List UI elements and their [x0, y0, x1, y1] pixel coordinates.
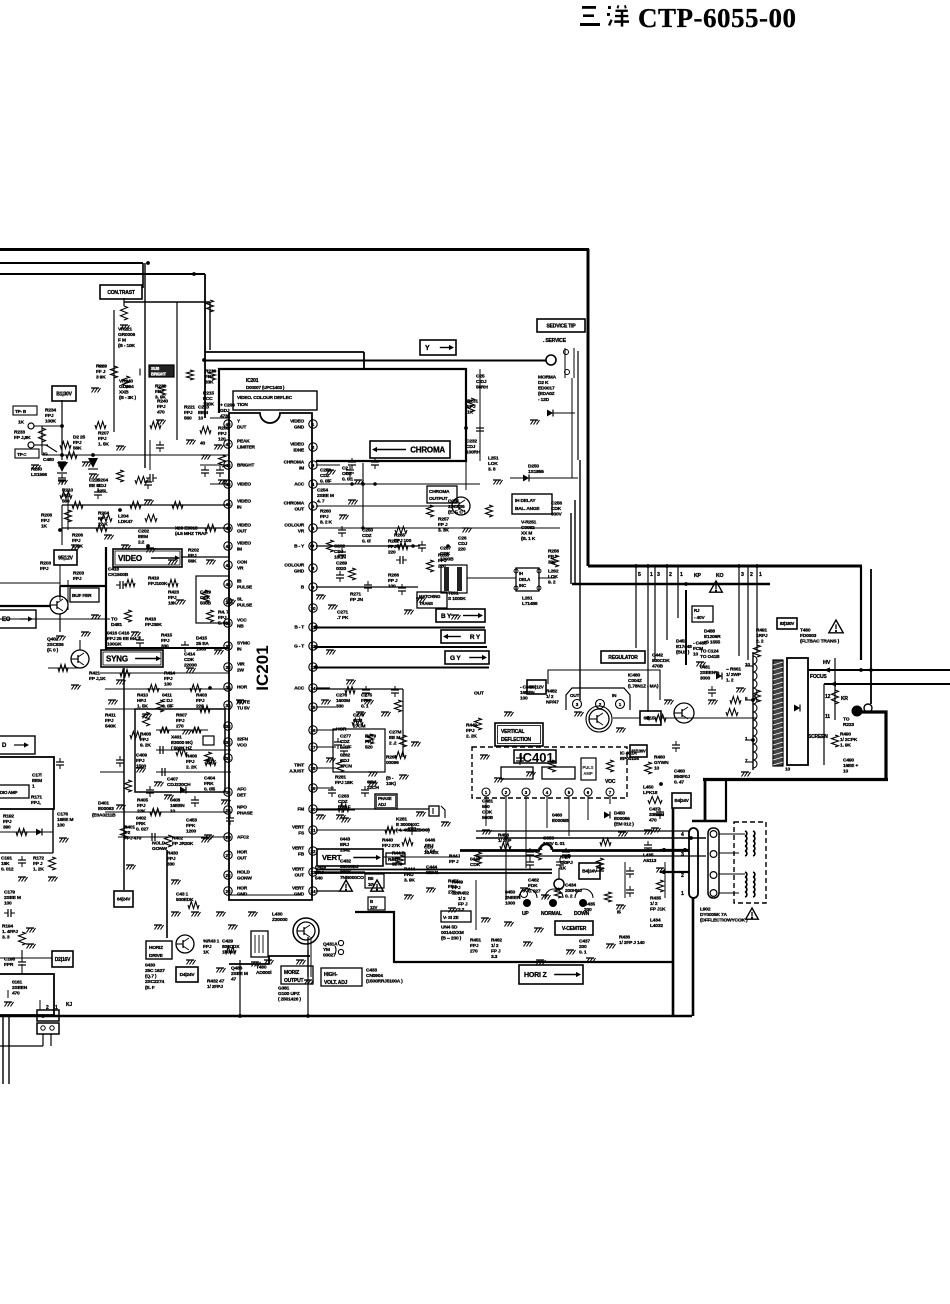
svg-text:G100 UPZ: G100 UPZ	[278, 991, 300, 997]
svg-text:0. 1: 0. 1	[579, 950, 587, 956]
svg-text:TINT: TINT	[294, 763, 304, 769]
svg-text:Z20000: Z20000	[272, 917, 288, 923]
svg-text:83|180V: 83|180V	[780, 621, 795, 626]
svg-text:VIDEO: VIDEO	[118, 554, 142, 563]
svg-text:EP00104: EP00104	[620, 756, 639, 762]
svg-text:EO: EO	[2, 617, 11, 623]
svg-text:1/ 2: 1/ 2	[546, 694, 554, 700]
svg-text:FPJ: FPJ	[157, 404, 166, 410]
svg-text:R460: R460	[654, 754, 665, 760]
svg-text:E3000 9K): E3000 9K)	[171, 740, 193, 746]
svg-text:FPJ: FPJ	[467, 404, 476, 410]
svg-text:18K: 18K	[1, 861, 10, 867]
svg-text:PHASE: PHASE	[378, 796, 392, 801]
svg-text:1. 2: 1. 2	[726, 678, 734, 684]
svg-text:26: 26	[225, 873, 231, 878]
svg-text:TO C124: TO C124	[700, 648, 719, 654]
svg-text:2342: 2342	[340, 848, 351, 854]
svg-text:C195: C195	[4, 956, 15, 962]
svg-text:1/ 2WP: 1/ 2WP	[726, 672, 742, 678]
svg-text:R430: R430	[167, 850, 178, 856]
svg-text:R432 47: R432 47	[207, 978, 225, 984]
svg-text:FPJ: FPJ	[470, 943, 479, 949]
svg-text:R440: R440	[382, 837, 393, 843]
svg-text:2: 2	[46, 1005, 49, 1011]
svg-text:25: 25	[225, 889, 231, 894]
svg-text:FPJ: FPJ	[136, 758, 145, 764]
svg-text:EE M: EE M	[389, 735, 400, 741]
svg-text:FM: FM	[297, 807, 304, 813]
svg-text:D2 25: D2 25	[73, 434, 86, 440]
svg-text:R607: R607	[176, 712, 187, 718]
svg-text:KR: KR	[841, 696, 848, 702]
svg-text:KP: KP	[694, 573, 702, 579]
svg-text:( 500K HZ: ( 500K HZ	[171, 746, 192, 752]
svg-text:C433: C433	[366, 967, 377, 973]
svg-text:C263: C263	[338, 793, 349, 799]
svg-text:330: 330	[336, 704, 344, 710]
svg-text:TO: TO	[843, 716, 850, 722]
svg-text:32FN: 32FN	[237, 737, 249, 743]
svg-text:CDZ: CDZ	[338, 799, 348, 805]
svg-text:FPJ 25 EE M4.7: FPJ 25 EE M4.7	[107, 636, 141, 642]
svg-text:C480: C480	[43, 457, 54, 463]
svg-text:FPJ39K: FPJ39K	[145, 622, 162, 628]
svg-text:D415: D415	[196, 635, 207, 641]
svg-text:VERTICAL: VERTICAL	[501, 729, 525, 735]
svg-text:12V: 12V	[370, 905, 377, 910]
svg-text:PHASE: PHASE	[237, 811, 254, 817]
svg-text:4. 7: 4. 7	[317, 499, 325, 505]
svg-text:R281: R281	[335, 774, 346, 780]
svg-text:IC480: IC480	[628, 672, 641, 678]
svg-text:NP/47: NP/47	[546, 700, 559, 706]
svg-text:DRIVE: DRIVE	[149, 953, 164, 959]
svg-text:800CDX: 800CDX	[222, 944, 240, 950]
svg-text:HV: HV	[823, 660, 831, 666]
svg-text:41: 41	[225, 563, 231, 568]
svg-text:0262: 0262	[340, 752, 351, 758]
svg-text:FPJ: FPJ	[466, 728, 475, 734]
svg-text:0161: 0161	[12, 979, 23, 985]
svg-text:C204: C204	[97, 477, 108, 483]
svg-text:T480: T480	[800, 627, 811, 633]
svg-text:2SC836: 2SC836	[47, 642, 64, 648]
svg-text:CHROMA: CHROMA	[429, 489, 450, 495]
svg-text:18K: 18K	[168, 601, 177, 607]
svg-text:120: 120	[218, 437, 226, 443]
svg-text:1: 1	[759, 572, 762, 578]
svg-text:R421: R421	[89, 670, 100, 676]
svg-text:16EEN: 16EEN	[520, 690, 535, 696]
svg-text:R490: R490	[840, 731, 851, 737]
svg-text:DET: DET	[237, 793, 246, 799]
svg-text:200HNJ: 200HNJ	[565, 888, 582, 894]
svg-text:0443: 0443	[340, 836, 351, 842]
svg-text:18: 18	[310, 766, 316, 771]
svg-text:10: 10	[654, 766, 660, 772]
svg-text:FP J: FP J	[438, 522, 448, 528]
svg-text:2. 2K: 2. 2K	[186, 765, 197, 771]
svg-text:FPJ: FPJ	[188, 553, 197, 559]
svg-text:R256: R256	[548, 548, 559, 554]
svg-text:VOC: VOC	[605, 779, 616, 785]
svg-text:VIDEO. COLOUR DEFLEC: VIDEO. COLOUR DEFLEC	[237, 395, 293, 401]
svg-text:4: 4	[312, 482, 315, 487]
svg-text:(Q.7 ): (Q.7 )	[145, 974, 157, 980]
svg-text:34: 34	[225, 703, 231, 708]
svg-text:(EDA0Z: (EDA0Z	[538, 391, 555, 397]
svg-text:ADJ: ADJ	[378, 802, 387, 807]
svg-text:1K: 1K	[467, 410, 474, 416]
svg-text:25C 1627: 25C 1627	[145, 968, 165, 974]
svg-text:E00063: E00063	[98, 806, 114, 812]
svg-text:7NB000CO: 7NB000CO	[340, 875, 364, 881]
svg-text:E1206R: E1206R	[704, 634, 721, 640]
svg-text:CN0904: CN0904	[366, 973, 383, 979]
svg-text:R203: R203	[73, 570, 84, 576]
svg-text:500CDK: 500CDK	[652, 658, 670, 664]
svg-text:FP J: FP J	[449, 859, 459, 865]
svg-text:FPR: FPR	[4, 962, 14, 968]
svg-text:0416 C416: 0416 C416	[107, 630, 130, 636]
svg-text:DY0005K 7A: DY0005K 7A	[700, 912, 727, 918]
svg-text:22: 22	[310, 849, 316, 854]
svg-text:XX M: XX M	[521, 531, 532, 537]
svg-text:540: 540	[315, 876, 323, 882]
svg-text:FPJ 18K: FPJ 18K	[335, 780, 354, 786]
svg-text:VR: VR	[237, 566, 244, 572]
svg-text:SYMC: SYMC	[237, 641, 251, 647]
svg-text:2. 2K: 2. 2K	[466, 734, 477, 740]
svg-text:R462: R462	[491, 937, 502, 943]
svg-text:VIR: VIR	[237, 662, 245, 668]
svg-text:CHROMA: CHROMA	[410, 445, 445, 454]
svg-text:KJ: KJ	[66, 1002, 72, 1008]
svg-text:1000: 1000	[505, 901, 516, 907]
svg-text:COLOUR: COLOUR	[284, 523, 304, 529]
svg-text:V-CEMTER: V-CEMTER	[562, 926, 587, 932]
svg-text:FP J,8K: FP J,8K	[14, 435, 31, 441]
svg-text:C DJ: C DJ	[476, 379, 487, 385]
svg-text:95|12V: 95|12V	[58, 555, 74, 561]
svg-text:T480: T480	[256, 964, 267, 970]
svg-text:R452: R452	[458, 890, 469, 896]
svg-text:33K: 33K	[205, 380, 214, 386]
svg-text:R408: R408	[140, 731, 151, 737]
svg-text:R44J: R44J	[449, 853, 460, 859]
svg-text:C262: C262	[334, 543, 345, 549]
svg-text:CDJ: CDJ	[458, 541, 468, 547]
svg-text:33: 33	[225, 724, 231, 729]
svg-text:R449: R449	[466, 722, 477, 728]
svg-text:0. 0l1: 0. 0l1	[342, 477, 354, 483]
svg-text:0. 027: 0. 027	[136, 827, 149, 833]
svg-text:FPJ,: FPJ,	[31, 800, 41, 806]
svg-text:OUT: OUT	[237, 529, 247, 535]
svg-text:R411: R411	[105, 712, 116, 718]
svg-text:10K): 10K)	[386, 781, 396, 787]
svg-text:FP J: FP J	[33, 861, 43, 867]
svg-text:0. 0l: 0. 0l	[362, 539, 371, 545]
svg-text:D401: D401	[98, 800, 109, 806]
svg-text:R271: R271	[350, 591, 361, 597]
svg-text:IC201: IC201	[253, 645, 272, 690]
svg-text:R208: R208	[41, 512, 52, 518]
svg-text:ERJ: ERJ	[340, 842, 349, 848]
svg-text:L251: L251	[488, 455, 499, 461]
svg-text:3.3: 3.3	[491, 954, 498, 960]
svg-text:FPJ: FPJ	[105, 718, 114, 724]
svg-text:R441: R441	[388, 857, 399, 862]
svg-text:CHROMA: CHROMA	[284, 460, 305, 466]
svg-text:VIDEO: VIDEO	[237, 482, 251, 488]
svg-text:14: 14	[310, 686, 316, 691]
svg-text:FPJ: FPJ	[438, 558, 447, 564]
svg-text:ACC: ACC	[294, 686, 305, 692]
svg-text:FD0003: FD0003	[800, 633, 817, 639]
svg-text:OUT: OUT	[474, 690, 484, 696]
svg-text:R223: R223	[843, 722, 854, 728]
svg-text:- 40V: - 40V	[694, 615, 705, 621]
svg-text:R215: R215	[203, 390, 214, 396]
svg-text:42: 42	[225, 544, 231, 549]
svg-text:FPJ: FPJ	[218, 431, 227, 437]
svg-text:C271: C271	[337, 609, 348, 615]
svg-text:TO: TO	[111, 616, 118, 622]
svg-text:FPJ: FPJ	[388, 544, 397, 550]
svg-text:C232: C232	[466, 438, 477, 444]
svg-text:R415: R415	[161, 632, 172, 638]
svg-text:GYWN: GYWN	[654, 760, 669, 766]
svg-text:16EE +: 16EE +	[843, 763, 858, 769]
svg-text:0. 47: 0. 47	[674, 780, 684, 786]
svg-text:VR: VR	[298, 529, 305, 535]
svg-text:INC: INC	[519, 583, 527, 588]
svg-text:0449: 0449	[470, 856, 481, 862]
svg-text:E17448: E17448	[676, 644, 692, 650]
svg-text:1/ 2FP J 140: 1/ 2FP J 140	[619, 940, 645, 946]
svg-text:TION: TION	[237, 402, 248, 408]
svg-text:C409: C409	[136, 752, 147, 758]
svg-text:K281: K281	[396, 816, 407, 822]
svg-text:FPJ: FPJ	[41, 518, 50, 524]
svg-text:C004Z: C004Z	[628, 678, 642, 684]
svg-text:21: 21	[310, 828, 316, 833]
svg-text:XXB: XXB	[119, 390, 129, 396]
svg-text:R194: R194	[2, 923, 13, 929]
svg-text:C434: C434	[565, 882, 576, 888]
svg-text:20: 20	[310, 807, 316, 812]
svg-text:DEFLECTION: DEFLECTION	[501, 737, 532, 743]
svg-text:R252: R252	[388, 538, 399, 544]
svg-text:1: 1	[55, 1005, 58, 1011]
svg-text:B5: B5	[368, 876, 374, 881]
svg-text:24: 24	[310, 889, 316, 894]
svg-text:16EE M: 16EE M	[57, 817, 73, 823]
svg-text:D250: D250	[528, 463, 539, 469]
svg-text:3 9K: 3 9K	[96, 375, 106, 381]
svg-text:IC 401A: IC 401A	[620, 750, 637, 756]
svg-text:330: 330	[167, 862, 175, 868]
svg-text:FPJ: FPJ	[73, 440, 82, 446]
svg-text:40: 40	[200, 440, 206, 446]
svg-text:FPJ 27K: FPJ 27K	[382, 843, 401, 849]
svg-text:3: 3	[741, 572, 744, 578]
svg-text:HIGH-: HIGH-	[324, 972, 338, 978]
svg-text:B: B	[370, 899, 373, 904]
svg-text:15: 15	[310, 705, 316, 710]
svg-text:2.2: 2.2	[138, 540, 145, 546]
svg-text:SL: SL	[237, 597, 243, 603]
svg-text:CDJ: CDJ	[424, 844, 434, 850]
svg-text:FCC: FCC	[203, 396, 213, 402]
svg-text:R435: R435	[650, 895, 661, 901]
svg-text:R233: R233	[14, 429, 25, 435]
svg-text:R206: R206	[72, 532, 83, 538]
svg-text:0481: 0481	[700, 664, 711, 670]
svg-text:FPJ: FPJ	[167, 856, 176, 862]
svg-text:B1|30V: B1|30V	[56, 391, 72, 397]
svg-text:DUT: DUT	[237, 425, 247, 431]
svg-text:V- SI ZE: V- SI ZE	[443, 915, 459, 920]
svg-text:3: 3	[681, 852, 684, 858]
svg-text:C26: C26	[458, 535, 467, 541]
svg-text:L204: L204	[118, 513, 129, 519]
svg-text:R207: R207	[98, 430, 109, 436]
svg-text:200: 200	[579, 944, 587, 950]
svg-text:27: 27	[225, 853, 231, 858]
svg-text:1RPJ: 1RPJ	[756, 633, 768, 639]
svg-text:56K: 56K	[73, 446, 82, 452]
svg-text:FPJ: FPJ	[218, 615, 227, 621]
svg-text:R405: R405	[137, 797, 148, 803]
svg-text:47: 47	[231, 977, 237, 983]
svg-text:HOR: HOR	[237, 886, 248, 892]
svg-text:CDJ: CDJ	[466, 444, 476, 450]
svg-text:VERT: VERT	[322, 853, 342, 862]
svg-text:C254: C254	[317, 487, 328, 493]
svg-text:(EM 012 ): (EM 012 )	[614, 822, 634, 828]
svg-text:LOK: LOK	[548, 574, 558, 580]
svg-text:0402: 0402	[136, 815, 147, 821]
svg-text:100: 100	[164, 682, 172, 688]
svg-text:00027: 00027	[323, 953, 336, 959]
svg-text:C442: C442	[652, 652, 663, 658]
svg-text:FOCUS: FOCUS	[810, 674, 827, 680]
svg-text:REGULATOR: REGULATOR	[608, 655, 638, 661]
svg-text:LOK: LOK	[488, 461, 498, 467]
svg-text:L262: L262	[548, 568, 559, 574]
svg-text:(BU2 ): (BU2 )	[676, 650, 690, 656]
svg-text:1K: 1K	[41, 524, 48, 530]
svg-text:R171: R171	[31, 794, 42, 800]
svg-text:VIDEO: VIDEO	[290, 442, 304, 448]
svg-text:56K: 56K	[188, 559, 197, 565]
svg-text:0450: 0450	[505, 889, 516, 895]
svg-text:L430: L430	[272, 911, 283, 917]
svg-text:C176: C176	[57, 811, 68, 817]
svg-text:OUT: OUT	[237, 856, 247, 862]
svg-text:00096: 00096	[386, 760, 399, 766]
svg-text:VIDEO: VIDEO	[237, 523, 251, 529]
svg-text:1/ 2: 1/ 2	[491, 943, 499, 949]
svg-text:(B - 3K ): (B - 3K )	[119, 395, 137, 401]
svg-text:540K: 540K	[105, 724, 117, 730]
svg-text:560B: 560B	[482, 815, 494, 821]
svg-text:CDK: CDK	[184, 657, 195, 663]
svg-text:HPJ: HPJ	[137, 698, 146, 704]
svg-text:470: 470	[649, 818, 657, 824]
svg-text:EEM: EEM	[138, 534, 148, 540]
svg-text:(E. F: (E. F	[145, 985, 155, 991]
svg-text:1/ 2: 1/ 2	[650, 901, 658, 907]
svg-text:R418: R418	[145, 616, 156, 622]
svg-text:1: 1	[312, 422, 315, 427]
svg-text:-- R661: -- R661	[726, 666, 741, 672]
svg-text:R202: R202	[188, 547, 199, 553]
svg-text:E0005B: E0005B	[552, 818, 569, 824]
svg-text:EEM: EEM	[32, 778, 42, 784]
svg-text:CDJ220CH: CDJ220CH	[167, 782, 191, 788]
svg-text:PULSE: PULSE	[237, 603, 253, 609]
svg-text:C269: C269	[336, 560, 347, 566]
svg-text:EEM: EEM	[198, 410, 208, 416]
svg-text:C414: C414	[184, 651, 195, 657]
svg-text:00144XXM: 00144XXM	[441, 930, 464, 936]
svg-text:D2 K: D2 K	[538, 380, 549, 386]
svg-text:5: 5	[638, 572, 641, 578]
svg-text:(B - 10K: (B - 10K	[118, 343, 136, 349]
svg-text:KO: KO	[716, 573, 724, 579]
svg-text:FS: FS	[298, 831, 305, 837]
svg-text:FRK: FRK	[136, 821, 146, 827]
svg-text:R Y: R Y	[470, 634, 481, 641]
svg-text:100: 100	[520, 696, 528, 702]
svg-text:Y: Y	[425, 345, 430, 352]
svg-text:I5: I5	[617, 909, 621, 915]
svg-text:1200: 1200	[186, 829, 197, 835]
svg-text:390: 390	[3, 825, 11, 831]
svg-text:220: 220	[458, 547, 466, 553]
svg-text:HOLD: HOLD	[237, 870, 251, 876]
svg-text:SCREEN: SCREEN	[808, 734, 828, 740]
svg-text:- C486: - C486	[693, 640, 707, 646]
svg-text:473L: 473L	[220, 414, 231, 420]
svg-text:560: 560	[184, 416, 192, 422]
svg-text:R410: R410	[137, 692, 148, 698]
svg-text:2.2: 2.2	[458, 907, 465, 913]
svg-text:FPJ: FPJ	[140, 737, 149, 743]
svg-text:L261: L261	[522, 595, 533, 601]
svg-text:1/ 2FPJ: 1/ 2FPJ	[207, 984, 223, 990]
svg-text:GHD: GHD	[294, 569, 305, 575]
svg-text:17: 17	[310, 745, 316, 750]
svg-text:3: 3	[657, 572, 660, 578]
svg-text:D481: D481	[111, 622, 122, 628]
svg-text:1K: 1K	[560, 866, 567, 872]
svg-text:VERT: VERT	[292, 867, 304, 873]
svg-text:470: 470	[12, 991, 20, 997]
svg-text:1: 1	[680, 572, 683, 578]
svg-text:IM: IM	[299, 466, 304, 472]
svg-text:VOLT. ADJ: VOLT. ADJ	[324, 980, 348, 986]
svg-text:B - Y: B - Y	[294, 544, 305, 550]
svg-text:R451: R451	[448, 878, 459, 884]
svg-text:0. 012: 0. 012	[1, 867, 14, 873]
svg-text:FPJ: FPJ	[98, 436, 107, 442]
svg-text:E50F0J: E50F0J	[674, 774, 690, 780]
